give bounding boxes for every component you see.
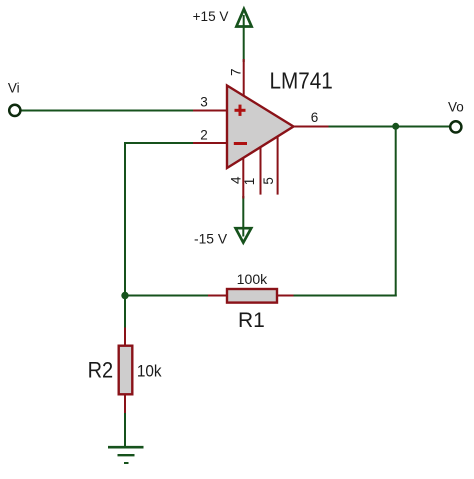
svg-text:+15 V: +15 V bbox=[193, 8, 230, 24]
svg-text:2: 2 bbox=[200, 128, 208, 143]
svg-text:10k: 10k bbox=[137, 362, 162, 381]
svg-text:R1: R1 bbox=[238, 309, 265, 332]
svg-text:1: 1 bbox=[242, 178, 257, 186]
svg-text:LM741: LM741 bbox=[270, 68, 333, 94]
svg-text:Vo: Vo bbox=[448, 100, 464, 115]
svg-text:7: 7 bbox=[228, 68, 243, 76]
svg-text:3: 3 bbox=[200, 95, 208, 110]
svg-text:R2: R2 bbox=[88, 358, 114, 383]
svg-text:100k: 100k bbox=[237, 272, 268, 287]
svg-text:5: 5 bbox=[261, 177, 276, 185]
svg-text:Vi: Vi bbox=[8, 81, 20, 96]
svg-text:-15 V: -15 V bbox=[194, 231, 228, 247]
svg-text:6: 6 bbox=[311, 110, 319, 125]
